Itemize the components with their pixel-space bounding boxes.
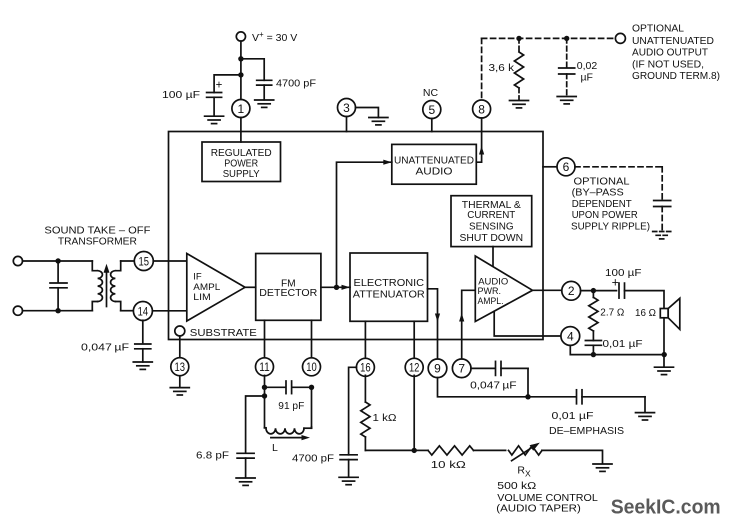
capacitor 0.01 uF de-emphasis: [528, 390, 645, 437]
svg-text:DE–EMPHASIS: DE–EMPHASIS: [549, 426, 624, 437]
wire: [663, 355, 665, 367]
capacitor 100 uF (output): [605, 267, 642, 298]
svg-text:14: 14: [138, 304, 149, 318]
capacitor 0.01 uF (zobel): [585, 331, 642, 350]
wire pin7 riser to audio pwr ampl: [462, 290, 476, 359]
svg-text:4: 4: [567, 329, 574, 343]
wire pin1 to regulated power supply: [240, 118, 242, 143]
wire: [179, 376, 181, 388]
ground: [636, 397, 655, 420]
svg-text:SENSING: SENSING: [469, 221, 514, 232]
input terminal (bottom): [13, 306, 22, 315]
wire pin11 down: [264, 375, 266, 427]
svg-text:15: 15: [139, 254, 150, 268]
inductor L: [265, 427, 312, 454]
junction: [591, 288, 596, 293]
junction: [525, 394, 530, 399]
arrow up on pin7 riser: [459, 313, 464, 322]
ground: [369, 118, 388, 125]
wire: [527, 368, 529, 396]
svg-text:7: 7: [458, 362, 465, 376]
svg-text:(IF NOT USED,: (IF NOT USED,: [632, 59, 704, 70]
svg-text:3: 3: [343, 101, 350, 115]
svg-text:LIM: LIM: [193, 292, 211, 303]
label sound take-off transformer: [44, 226, 150, 248]
dashed wire down: [661, 167, 663, 200]
svg-text:ELECTRONIC: ELECTRONIC: [354, 278, 425, 289]
bypass capacitor (optional): [654, 201, 671, 207]
capacitor 4700 pF (top): [257, 77, 316, 89]
wire attenuator bottom to pin12: [413, 321, 415, 359]
svg-text:+: +: [216, 80, 223, 92]
svg-text:TRANSFORMER: TRANSFORMER: [58, 237, 137, 248]
wire to 6.8 pF: [246, 396, 265, 453]
wire: [348, 460, 350, 477]
wire pin2 to output: [581, 290, 617, 292]
svg-text:SUPPLY: SUPPLY: [223, 169, 260, 180]
ground (dashed): [653, 232, 672, 239]
wire to speaker: [625, 291, 665, 309]
svg-text:0,01 µF: 0,01 µF: [603, 338, 643, 350]
wire junction up to unattenuated audio: [337, 162, 392, 287]
pin 16: [356, 358, 374, 376]
capacitor 91 pF: [265, 381, 312, 412]
terminal SUBSTRATE: [175, 326, 257, 339]
wire to 4700 pF: [241, 59, 264, 81]
wire pin3 to IC: [346, 117, 348, 132]
svg-text:4700 pF: 4700 pF: [276, 77, 316, 89]
svg-text:UPON POWER: UPON POWER: [572, 210, 638, 221]
resistor 2.7 Ohm: [589, 291, 625, 331]
pin 1: [232, 100, 250, 118]
capacitor 0.047 uF (input): [81, 342, 151, 354]
wire speaker return: [663, 318, 665, 355]
pin 12: [405, 358, 423, 376]
svg-text:6: 6: [563, 160, 570, 174]
svg-text:12: 12: [409, 361, 420, 375]
wire: [245, 458, 247, 477]
ground: [236, 478, 255, 485]
svg-text:91 pF: 91 pF: [278, 400, 304, 412]
block FM DETECTOR: [256, 254, 321, 321]
svg-text:DETECTOR: DETECTOR: [259, 288, 317, 299]
wire: [566, 74, 568, 96]
pin 9: [428, 359, 447, 378]
junction: [262, 393, 267, 398]
svg-text:0,02: 0,02: [577, 60, 598, 72]
junction: [516, 36, 521, 41]
ground: [510, 101, 529, 108]
svg-text:(AUDIO TAPER): (AUDIO TAPER): [496, 503, 581, 514]
svg-text:1 kΩ: 1 kΩ: [373, 412, 397, 424]
svg-text:11: 11: [259, 360, 270, 374]
svg-text:3,6 k: 3,6 k: [489, 62, 515, 74]
svg-text:0,01 µF: 0,01 µF: [552, 410, 594, 422]
ground: [593, 464, 612, 471]
svg-text:SHUT DOWN: SHUT DOWN: [460, 233, 524, 244]
resistor 10 kOhm: [414, 446, 473, 471]
svg-text:8: 8: [478, 102, 485, 116]
wire pin14 down: [142, 320, 144, 342]
svg-text:5: 5: [428, 103, 435, 117]
junction: [55, 308, 60, 313]
svg-text:DEPENDENT: DEPENDENT: [572, 199, 632, 210]
junction: [309, 385, 314, 390]
junction: [238, 72, 243, 77]
arrow into unattenuated audio: [383, 160, 392, 165]
ground: [170, 388, 189, 395]
wire pin4 to ground rail: [570, 345, 664, 354]
block ELECTRONIC ATTENUATOR: [350, 253, 428, 321]
capacitor 4700 pF (bottom): [292, 453, 357, 465]
junction: [662, 352, 667, 357]
speaker 16 Ohm: [635, 298, 680, 329]
svg-text:OPTIONAL: OPTIONAL: [574, 177, 630, 188]
svg-text:6.8 pF: 6.8 pF: [196, 450, 229, 462]
svg-text:2: 2: [568, 284, 575, 298]
terminal V+ = 30 V: [236, 30, 297, 44]
resistor 3.6 k: [489, 38, 524, 88]
wire attenuator output to pin9: [428, 289, 438, 359]
wire audio out to pin2: [533, 289, 562, 291]
wire IC to pin6: [543, 166, 557, 168]
wire attenuator bottom to pin16: [364, 321, 366, 359]
svg-text:L: L: [272, 442, 278, 454]
arrow up to pin8: [479, 146, 484, 155]
arrow into attenuator: [342, 285, 351, 290]
svg-text:UNATTENUATED: UNATTENUATED: [632, 36, 714, 47]
svg-text:NC: NC: [423, 87, 439, 99]
IC block outline: [169, 132, 544, 340]
pin 14: [133, 302, 152, 321]
svg-text:VOLUME CONTROL: VOLUME CONTROL: [497, 493, 598, 504]
amplifier IF AMPL LIM: [187, 254, 245, 322]
junction: [591, 352, 596, 357]
pin 3: [338, 99, 356, 117]
wire pin8 to IC: [481, 118, 483, 132]
svg-text:SUPPLY RIPPLE): SUPPLY RIPPLE): [571, 221, 650, 232]
capacitor 0.047 uF (coupling): [470, 361, 528, 391]
wire: [518, 88, 520, 100]
junction: [55, 258, 60, 263]
junction: [564, 36, 569, 41]
dashed wire to optional output terminal: [482, 37, 616, 39]
pin 7: [452, 359, 471, 378]
svg-text:13: 13: [175, 360, 186, 374]
junction: [262, 385, 267, 390]
wire pin16 to 4700 pF: [349, 367, 357, 455]
capacitor 0.02 uF: [559, 38, 598, 83]
ground: [255, 100, 274, 107]
junction: [238, 56, 243, 61]
wire pin4 feedback: [494, 312, 561, 337]
wire: [142, 349, 144, 362]
wire: [213, 97, 215, 116]
svg-text:V+ = 30 V: V+ = 30 V: [252, 30, 297, 44]
wire to 100 uF: [214, 75, 241, 93]
svg-text:2.7 Ω: 2.7 Ω: [600, 307, 624, 319]
dashed wire: [661, 207, 663, 231]
svg-text:100 µF: 100 µF: [162, 89, 200, 101]
wire: [592, 345, 594, 354]
wire V+ to pin 1: [240, 41, 242, 99]
wire IF ampl to FM detector: [245, 286, 256, 288]
capacitor 100 uF (supply): [162, 80, 223, 101]
svg-text:10 kΩ: 10 kΩ: [431, 459, 466, 471]
svg-text:100 µF: 100 µF: [605, 267, 642, 279]
wire pin12 down: [413, 375, 415, 450]
pin 6: [557, 158, 575, 176]
svg-text:UNATTENUATED: UNATTENUATED: [394, 156, 474, 167]
ground: [557, 97, 576, 104]
wire thermal to audio pwr ampl: [492, 247, 494, 267]
svg-text:0,047 µF: 0,047 µF: [470, 380, 516, 392]
input tuning capacitor: [50, 261, 67, 311]
wire pin14 to IF ampl: [152, 310, 186, 312]
wire pin3 to ground: [356, 108, 379, 118]
pin 11: [256, 358, 274, 376]
ground: [133, 362, 152, 369]
svg-text:ATTENUATOR: ATTENUATOR: [353, 289, 425, 300]
terminal optional unattenuated audio output: [615, 33, 625, 43]
pin 5: [423, 101, 441, 119]
label bypass note: [571, 177, 650, 233]
svg-text:AUDIO: AUDIO: [416, 167, 453, 178]
potentiometer RX 500k volume control: [496, 443, 598, 515]
ground: [655, 367, 674, 374]
ground: [205, 116, 224, 123]
svg-text:AMPL.: AMPL.: [478, 296, 504, 307]
wire: [23, 310, 93, 312]
svg-text:16: 16: [360, 361, 371, 375]
wire FM detector output: [321, 286, 350, 288]
capacitor 6.8 pF: [196, 450, 254, 462]
wire unattenuated audio to pin8: [476, 132, 481, 163]
amplifier AUDIO PWR AMPL: [475, 256, 532, 322]
svg-text:4700 pF: 4700 pF: [292, 453, 334, 465]
pin 13: [171, 358, 189, 376]
svg-text:SOUND TAKE – OFF: SOUND TAKE – OFF: [44, 226, 150, 237]
wire: [542, 450, 603, 463]
svg-text:POWER: POWER: [224, 158, 258, 169]
wire: [23, 260, 93, 262]
pin 8: [473, 100, 491, 118]
wire FM detector bottom to pin11: [264, 320, 266, 358]
wire pin5 to IC: [431, 119, 433, 132]
pin 10: [303, 358, 321, 376]
input terminal (top): [13, 256, 22, 265]
pin 4: [561, 327, 580, 346]
arrow down to pin9: [435, 314, 440, 323]
dashed wire pin6 bypass: [575, 166, 662, 168]
wire: [263, 85, 265, 100]
ground: [339, 477, 358, 484]
block UNATTENUATED AUDIO: [392, 144, 477, 184]
wire 1k to junction: [365, 449, 414, 451]
svg-text:0,047 µF: 0,047 µF: [81, 342, 129, 354]
junction: [334, 285, 339, 290]
svg-text:(BY–PASS: (BY–PASS: [572, 188, 624, 199]
svg-text:µF: µF: [581, 72, 593, 84]
dashed wire pin8 up: [481, 38, 483, 100]
pin 15: [134, 252, 153, 271]
block REGULATED POWER SUPPLY: [202, 142, 281, 182]
wire: [474, 449, 506, 451]
transformer T1: [92, 261, 135, 311]
wire pin10 down: [311, 387, 313, 428]
svg-text:GROUND TERM.8): GROUND TERM.8): [632, 71, 720, 82]
pin 2: [562, 281, 581, 300]
svg-text:10: 10: [306, 360, 317, 374]
wire substrate to pin13: [179, 336, 181, 357]
label optional output note: [632, 24, 720, 83]
svg-text:AUDIO OUTPUT: AUDIO OUTPUT: [632, 48, 708, 59]
svg-text:16 Ω: 16 Ω: [635, 307, 656, 319]
wire pin15 to IF ampl: [153, 260, 187, 262]
svg-text:OPTIONAL: OPTIONAL: [632, 24, 684, 35]
block THERMAL & CURRENT SENSING SHUT DOWN: [451, 196, 532, 247]
wire FM detector bottom to pin10: [311, 320, 313, 358]
svg-text:9: 9: [434, 362, 441, 376]
svg-text:CURRENT: CURRENT: [467, 210, 515, 221]
svg-text:SUBSTRATE: SUBSTRATE: [190, 327, 257, 339]
resistor 1 kOhm: [361, 375, 397, 450]
svg-text:1: 1: [238, 102, 245, 116]
wire pin9 down: [438, 378, 529, 397]
svg-text:AMPL: AMPL: [193, 282, 220, 293]
svg-text:500 kΩ: 500 kΩ: [497, 480, 536, 492]
junction: [412, 448, 417, 453]
svg-text:SeekIC.com: SeekIC.com: [611, 496, 721, 519]
